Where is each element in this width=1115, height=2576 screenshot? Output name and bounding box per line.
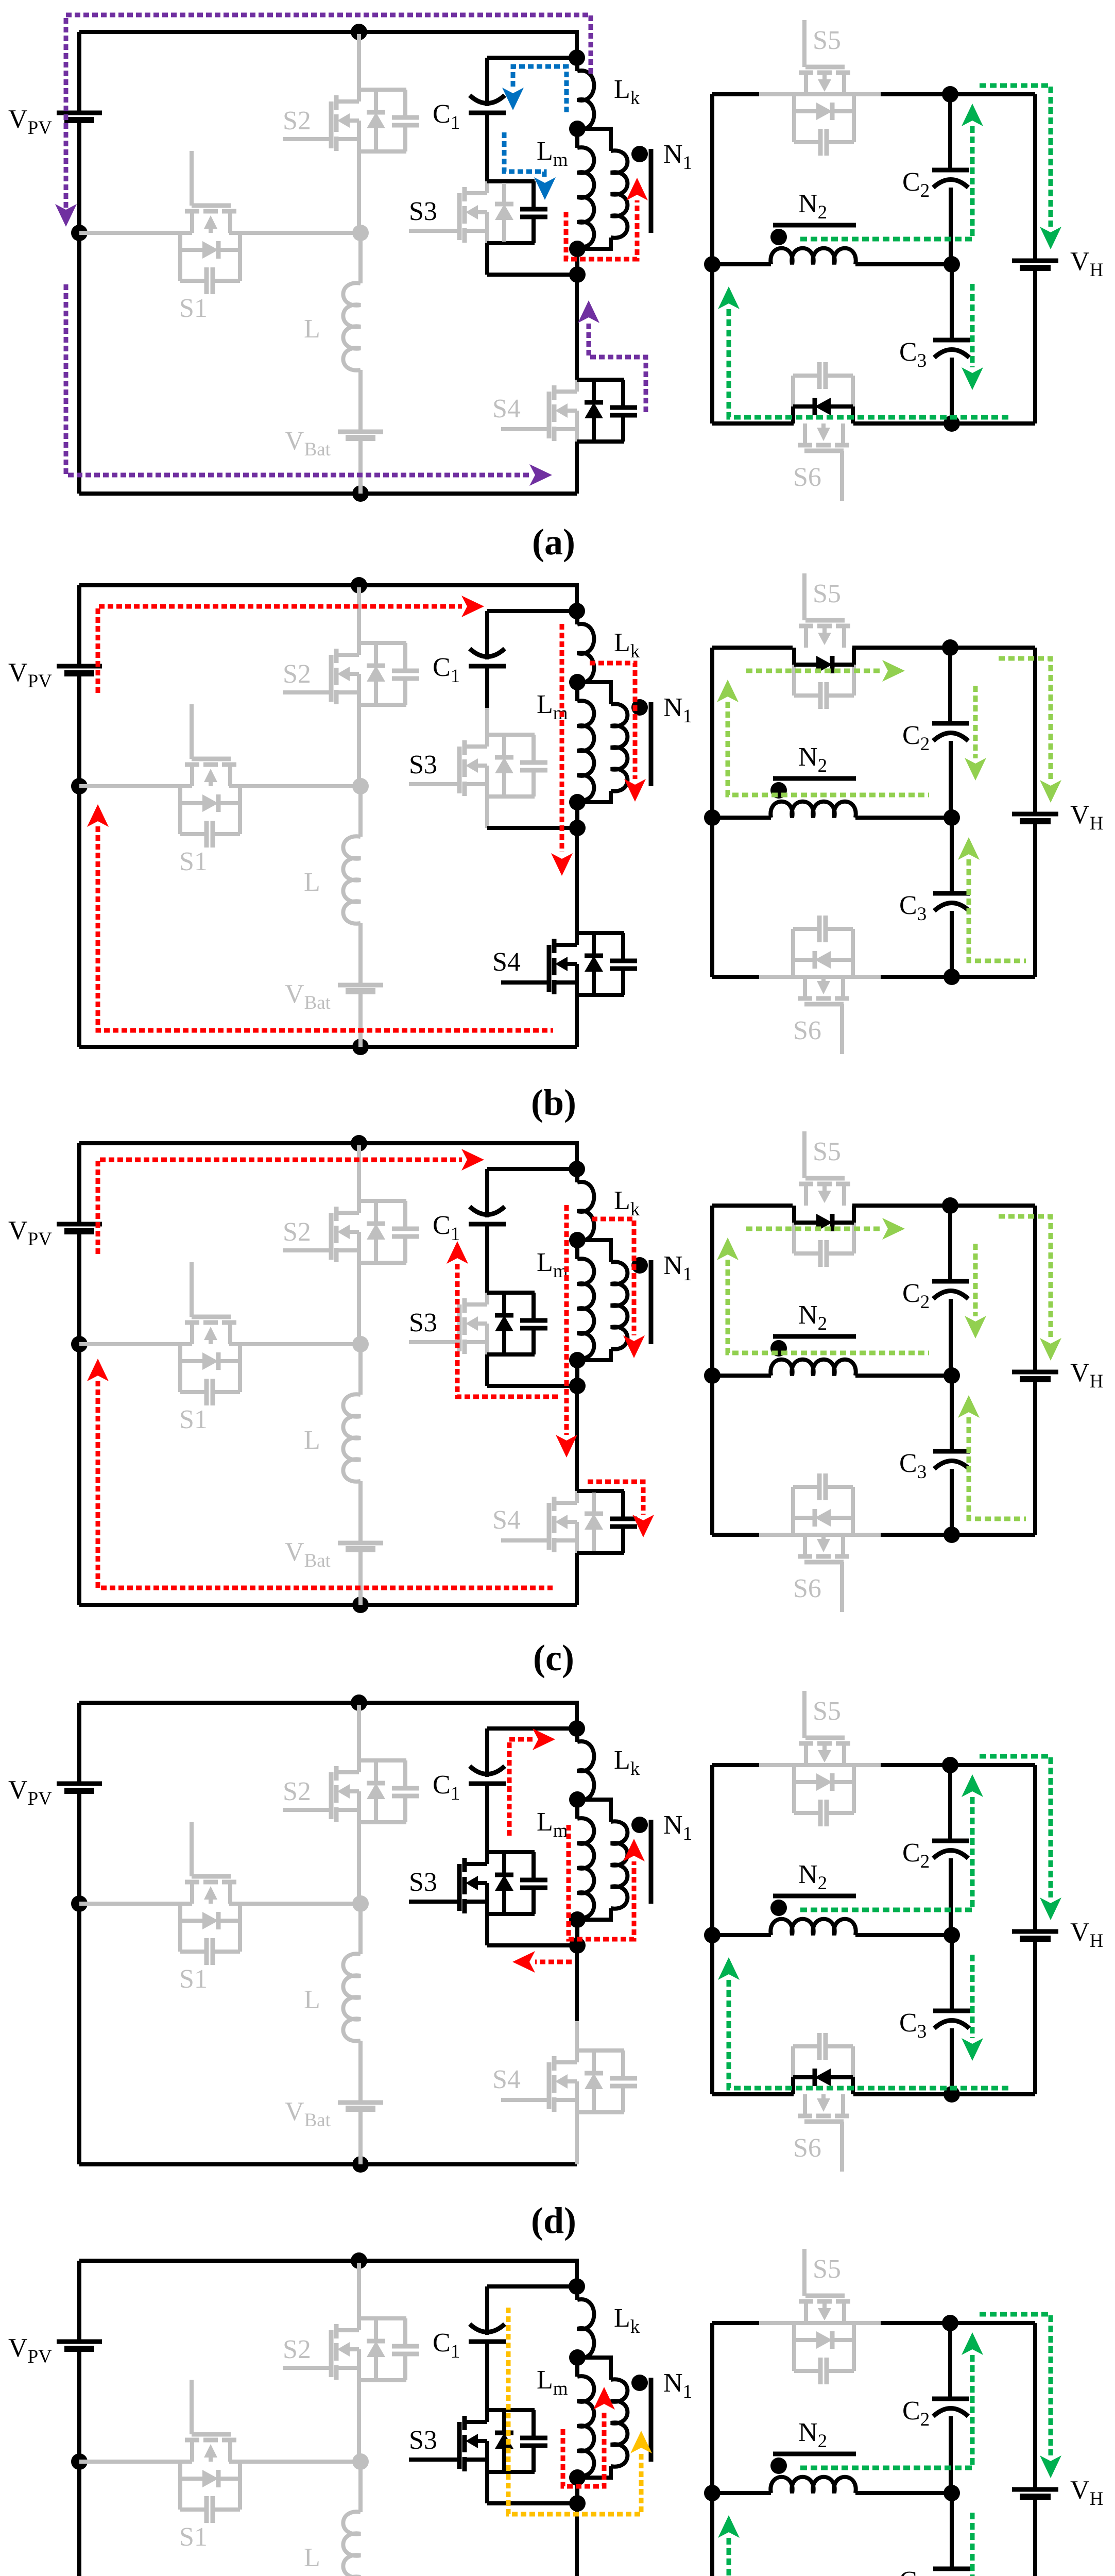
battery V_PV xyxy=(57,664,102,669)
current path red through clamp xyxy=(560,624,564,852)
node N2 right xyxy=(944,256,960,273)
wire middle rail (grey) xyxy=(79,2460,192,2464)
body diode S6 conduction path xyxy=(791,406,795,423)
gate lead S5 xyxy=(802,1131,807,1178)
polarity dot N2 xyxy=(770,229,787,245)
node clamp bottom junction xyxy=(569,266,586,283)
inductor Lm xyxy=(575,1800,579,1819)
wire bottom rail left circuit xyxy=(79,2162,577,2166)
inductor Lk xyxy=(577,71,594,129)
inductor Lk xyxy=(577,624,594,683)
wire left rail upper xyxy=(77,585,81,666)
node top S2 junction xyxy=(351,24,367,40)
current path green return via S6 xyxy=(729,309,1012,417)
wire bottom rail left circuit xyxy=(79,1603,577,1607)
wire S3 source stub xyxy=(485,1914,489,1945)
svg-text:S5: S5 xyxy=(813,579,841,608)
gate lead S1 xyxy=(190,151,194,206)
winding N1 xyxy=(577,2358,611,2380)
gate lead S3 xyxy=(409,782,459,786)
wire S2 source stub xyxy=(357,705,361,786)
svg-text:S4: S4 xyxy=(492,394,521,423)
wire clamp bottom rail xyxy=(487,2501,577,2505)
wire right right rail upper xyxy=(1033,1206,1037,1372)
polarity dot N1 xyxy=(631,1817,648,1833)
wire L upper stub xyxy=(358,1904,363,1954)
current path green through C3 xyxy=(970,284,975,367)
core bar N1 xyxy=(649,1260,654,1344)
capacitor C1 xyxy=(469,1222,506,1227)
svg-text:L: L xyxy=(304,1985,320,2014)
wire C3 branch lower xyxy=(950,2028,954,2094)
core bar N2 xyxy=(773,223,856,228)
node Lk-Lm junction xyxy=(569,674,586,690)
capacitor C2 xyxy=(932,1279,969,1284)
wire L to V_Bat xyxy=(358,923,363,985)
transistor S2 xyxy=(334,95,339,110)
wire bottom rail right circuit xyxy=(712,2092,794,2096)
svg-text:L: L xyxy=(304,2543,320,2572)
node transformer top xyxy=(569,603,585,619)
node top S2 junction xyxy=(351,1694,367,1711)
battery V_PV xyxy=(57,111,102,115)
node N2 left xyxy=(704,256,721,273)
core bar N1 xyxy=(649,2378,654,2462)
svg-text:(c): (c) xyxy=(533,1637,574,1679)
node middle grey junction xyxy=(352,1336,369,1352)
wire clamp bottom rail xyxy=(487,273,577,277)
wire C2 branch upper xyxy=(948,1765,952,1841)
transistor S4 xyxy=(552,2056,557,2071)
transistor S2 xyxy=(334,1207,339,1221)
wire C2 branch lower xyxy=(949,2416,953,2493)
wire C1 to S3 xyxy=(485,2342,489,2383)
wire C3 branch upper xyxy=(950,1935,954,2011)
svg-text:S1: S1 xyxy=(179,2522,208,2552)
wire clamp bottom rail xyxy=(487,1384,577,1388)
battery V_H xyxy=(1012,1370,1058,1375)
wire left rail lower xyxy=(77,120,81,494)
transistor S4 xyxy=(552,385,557,400)
winding N1 xyxy=(577,1800,611,1822)
node C3 bottom xyxy=(944,415,960,432)
current path light-green up through C3 xyxy=(969,1417,1026,1519)
transistor S2 xyxy=(334,1766,339,1781)
svg-text:S1: S1 xyxy=(179,294,208,323)
inductor L xyxy=(343,2512,361,2576)
wire right right rail upper xyxy=(1033,648,1037,814)
polarity dot N2 xyxy=(770,1340,787,1357)
node N2 left xyxy=(704,809,721,826)
wire Lm-clamp link xyxy=(575,1920,579,1945)
gate lead S1 xyxy=(190,1262,194,1317)
node left-mid junction xyxy=(71,778,88,794)
wire S2 drain stub xyxy=(357,587,361,643)
transistor S1 xyxy=(185,2438,199,2443)
inductor Lk xyxy=(577,1741,594,1800)
node N2 left xyxy=(704,1367,721,1384)
body diode S5 conduction path xyxy=(792,648,796,665)
wire top rail right circuit xyxy=(712,646,793,650)
node C2 top xyxy=(942,639,958,656)
wire top rail right circuit xyxy=(712,1204,793,1208)
wire S2 drain stub xyxy=(357,34,361,90)
current path green return via S6 xyxy=(729,1980,1012,2088)
svg-text:S2: S2 xyxy=(283,106,311,135)
current path green through C3 xyxy=(970,2513,975,2576)
wire S2 drain stub xyxy=(357,2263,361,2318)
svg-text:S3: S3 xyxy=(409,1868,437,1897)
gate lead S2 xyxy=(283,137,331,141)
wire C3 branch lower xyxy=(950,911,954,977)
wire bottom rail right circuit xyxy=(712,421,794,426)
core bar N2 xyxy=(773,1334,856,1339)
wire L to V_Bat xyxy=(358,2041,363,2103)
current path light-green down through C2 xyxy=(973,686,978,758)
current path green return via S6 xyxy=(729,2538,1012,2576)
gate lead S4 xyxy=(501,2098,549,2102)
wire top rail right circuit xyxy=(712,1763,1035,1767)
wire right right rail lower xyxy=(1033,2497,1037,2576)
svg-text:S4: S4 xyxy=(492,947,521,977)
wire S4 source xyxy=(575,995,579,1047)
wire C2 branch upper xyxy=(948,648,952,723)
node left-mid junction xyxy=(71,1895,88,1912)
transistor S6 xyxy=(798,996,812,1001)
node N2 right xyxy=(944,1927,960,1943)
inductor L xyxy=(343,1394,361,1481)
battery V_H xyxy=(1012,812,1058,817)
node Lk-Lm junction xyxy=(569,1791,586,1808)
transistor S3 xyxy=(462,1858,467,1872)
svg-text:S3: S3 xyxy=(409,1308,437,1337)
wire C3 branch upper xyxy=(950,264,954,340)
battery V_PV xyxy=(57,1782,102,1786)
core bar N2 xyxy=(773,776,856,781)
node transformer top xyxy=(569,49,585,66)
wire left rail upper xyxy=(77,32,81,113)
wire top rail left circuit xyxy=(79,2261,577,2286)
node N2 right xyxy=(944,1367,960,1384)
wire L to V_Bat xyxy=(358,1481,363,1543)
wire right right rail lower xyxy=(1033,821,1037,977)
capacitor C2 xyxy=(932,1839,969,1843)
wire Lm-clamp link xyxy=(575,802,579,828)
node middle grey junction xyxy=(352,778,369,794)
current path red main loop bottom xyxy=(98,1381,553,1588)
wire C1 to S3 xyxy=(485,113,489,155)
node Lm bottom xyxy=(569,241,586,257)
inductor Lm xyxy=(575,2358,579,2377)
current path orange C1 N1 loop xyxy=(508,2308,641,2514)
current path red S3 to node xyxy=(509,1739,533,1836)
inductor Lm xyxy=(575,1240,579,1259)
current path purple S4 to transformer xyxy=(589,323,646,412)
wire V_Bat to bottom xyxy=(358,438,363,494)
inductor Lm xyxy=(575,129,579,148)
node C3 bottom xyxy=(944,969,960,985)
capacitor C1 xyxy=(469,111,506,115)
wire S4 drain xyxy=(575,1386,579,1462)
wire Lm-clamp link xyxy=(575,2478,579,2503)
current path blue C1 charge xyxy=(513,66,567,112)
core bar N1 xyxy=(649,702,654,786)
node transformer top xyxy=(569,2278,585,2295)
gate lead S6 xyxy=(840,451,844,501)
wire S2 source stub xyxy=(357,1822,361,1904)
svg-text:S5: S5 xyxy=(813,1137,841,1166)
node C2 top xyxy=(942,1197,958,1214)
svg-text:L: L xyxy=(304,314,320,344)
svg-text:S3: S3 xyxy=(409,197,437,226)
wire C2 branch lower xyxy=(949,1858,953,1935)
body diode S6 conduction path xyxy=(791,2077,795,2094)
wire clamp bottom rail xyxy=(487,1943,577,1947)
gate lead S2 xyxy=(283,1248,331,1252)
transistor S1 xyxy=(185,762,199,767)
wire C1 to S3 xyxy=(485,1224,489,1266)
polarity dot N1 xyxy=(631,2375,648,2391)
current path red main loop bottom xyxy=(98,826,553,1030)
wire clamp top rail xyxy=(487,1726,577,1731)
transistor S5 xyxy=(799,624,813,629)
wire S2 drain stub xyxy=(357,1705,361,1760)
winding N2 xyxy=(712,816,771,820)
current path light-green down through C2 xyxy=(973,1244,978,1316)
wire V_Bat to bottom xyxy=(358,1549,363,1605)
wire Lm-clamp link xyxy=(575,249,579,275)
wire bottom rail left circuit xyxy=(79,1045,577,1049)
wire V_Bat to bottom xyxy=(358,2109,363,2164)
wire S4 source xyxy=(575,442,579,494)
battery V_H xyxy=(1012,259,1058,263)
core bar N1 xyxy=(649,1820,654,1904)
wire L upper stub xyxy=(358,1344,363,1395)
wire C1 top stub xyxy=(485,611,489,659)
current path red Lk N1 loop xyxy=(592,1219,634,1335)
svg-text:S1: S1 xyxy=(179,1405,208,1434)
current path red into S3 return xyxy=(535,1960,572,1964)
wire middle rail (grey) xyxy=(79,231,192,235)
node left-mid junction xyxy=(71,1336,88,1352)
current path red down through Lk xyxy=(564,1205,569,1435)
node C2 top xyxy=(942,2315,958,2331)
node clamp bottom junction xyxy=(569,1378,586,1394)
wire S3 source stub xyxy=(485,1354,489,1386)
gate lead S5 xyxy=(802,1691,807,1738)
gate lead S3 xyxy=(409,229,459,233)
winding N1 xyxy=(577,1240,611,1262)
gate lead S1 xyxy=(190,704,194,759)
svg-text:S4: S4 xyxy=(492,2065,521,2094)
core bar N1 xyxy=(649,149,654,233)
wire S3 source stub xyxy=(485,2472,489,2503)
gate lead S2 xyxy=(283,690,331,694)
transistor S5 xyxy=(799,1182,813,1187)
node top S2 junction xyxy=(351,577,367,594)
current path green N2 to C2 xyxy=(800,126,972,239)
node transformer top xyxy=(569,1161,585,1177)
current path red main loop top xyxy=(98,1160,462,1254)
wire C3 branch upper xyxy=(950,2493,954,2569)
wire top rail left circuit xyxy=(79,585,577,611)
node top S2 junction xyxy=(351,1135,367,1151)
current path green through C3 xyxy=(970,1955,975,2038)
wire V_Bat to bottom xyxy=(358,991,363,1047)
winding N2 xyxy=(712,2491,771,2495)
transistor S6 xyxy=(798,1554,812,1559)
gate lead S1 xyxy=(190,1822,194,1876)
core bar N2 xyxy=(773,1894,856,1899)
wire S4 drain xyxy=(575,2503,579,2576)
transistor S6 xyxy=(798,443,812,448)
svg-text:S2: S2 xyxy=(283,2335,311,2364)
transistor S2 xyxy=(334,2324,339,2338)
wire left rail lower xyxy=(77,673,81,1047)
wire bottom rail right circuit xyxy=(712,975,1035,979)
capacitor C1 xyxy=(469,664,506,669)
transistor S6 xyxy=(798,2114,812,2119)
capacitor C1 xyxy=(469,2340,506,2344)
gate lead S3 xyxy=(409,1340,459,1344)
capacitor C3 xyxy=(933,338,970,343)
wire C1 to S3 xyxy=(485,1784,489,1825)
wire S2 source stub xyxy=(357,151,361,233)
gate lead S4 xyxy=(501,980,549,985)
transistor S3 xyxy=(462,1298,467,1313)
wire S3 source stub xyxy=(485,243,489,275)
wire S4 source xyxy=(575,2112,579,2164)
node clamp bottom junction xyxy=(569,820,586,836)
battery V_H xyxy=(1012,2487,1058,2492)
svg-text:S3: S3 xyxy=(409,2426,437,2455)
wire left rail lower xyxy=(77,1791,81,2164)
polarity dot N1 xyxy=(631,146,648,162)
gate lead S3 xyxy=(409,1900,459,1904)
inductor Lm xyxy=(575,682,579,701)
node C3 bottom xyxy=(944,1527,960,1543)
node clamp bottom junction xyxy=(569,1937,586,1954)
svg-text:S1: S1 xyxy=(179,1964,208,1994)
transistor S3 xyxy=(462,187,467,201)
wire C2 branch upper xyxy=(948,1206,952,1281)
gate lead S5 xyxy=(802,20,807,67)
svg-text:S2: S2 xyxy=(283,1217,311,1247)
svg-text:S6: S6 xyxy=(793,1574,821,1603)
inductor Lk xyxy=(577,2299,594,2358)
node Lk-Lm junction xyxy=(569,2349,586,2366)
svg-text:L: L xyxy=(304,868,320,897)
polarity dot N2 xyxy=(770,782,787,799)
svg-text:(b): (b) xyxy=(531,1082,576,1123)
capacitor C3 xyxy=(933,2009,970,2013)
node N2 right xyxy=(944,2485,960,2501)
wire S3 source stub xyxy=(485,796,489,828)
current path red Lk N1 loop xyxy=(590,663,635,779)
capacitor C3 xyxy=(933,891,970,896)
wire S4 source xyxy=(575,1553,579,1605)
svg-text:S2: S2 xyxy=(283,1777,311,1806)
current path red up through C1 xyxy=(457,1264,559,1397)
svg-text:(d): (d) xyxy=(531,2200,576,2241)
wire top rail left circuit xyxy=(79,1703,577,1728)
node N2 left xyxy=(704,2485,721,2501)
winding N2 xyxy=(712,1374,771,1378)
battery V_H xyxy=(1012,1929,1058,1934)
node middle grey junction xyxy=(352,1895,369,1912)
wire right right rail upper xyxy=(1033,94,1037,261)
wire left rail lower xyxy=(77,1231,81,1605)
capacitor C1 xyxy=(469,1782,506,1786)
wire C2 branch upper xyxy=(948,94,952,170)
transistor S3 xyxy=(462,740,467,755)
transistor S5 xyxy=(799,1741,813,1746)
inductor L xyxy=(343,1954,361,2041)
svg-text:S6: S6 xyxy=(793,2133,821,2163)
node left-mid junction xyxy=(71,225,88,241)
wire right right rail lower xyxy=(1033,1379,1037,1535)
wire S4 drain xyxy=(575,828,579,904)
inductor L xyxy=(343,283,361,370)
wire C2 branch lower xyxy=(949,188,953,264)
gate lead S4 xyxy=(501,1538,549,1543)
winding N1 xyxy=(577,682,611,704)
transistor S1 xyxy=(185,1320,199,1325)
battery V_PV xyxy=(57,2340,102,2344)
node Lm bottom xyxy=(569,2469,586,2486)
wire right right rail lower xyxy=(1033,268,1037,423)
current path red N1 loop xyxy=(566,200,637,259)
battery V_Bat xyxy=(338,983,383,988)
svg-text:S5: S5 xyxy=(813,2255,841,2284)
wire S2 source stub xyxy=(357,1263,361,1344)
node C3 bottom xyxy=(944,2086,960,2103)
current path purple bottom loop xyxy=(66,284,529,475)
svg-text:S6: S6 xyxy=(793,1016,821,1045)
gate lead S6 xyxy=(840,1562,844,1612)
svg-text:S3: S3 xyxy=(409,750,437,779)
wire right right rail lower xyxy=(1033,1939,1037,2094)
node middle grey junction xyxy=(352,225,369,241)
node left-mid junction xyxy=(71,2453,88,2470)
current path light-green left rail up xyxy=(728,1260,929,1353)
node Lk-Lm junction xyxy=(569,121,586,137)
wire S4 drain xyxy=(575,1945,579,2021)
current path green into V_H xyxy=(980,86,1051,227)
wire right left rail xyxy=(710,1765,714,2094)
current path light-green left rail up xyxy=(728,702,929,795)
inductor Lk xyxy=(577,1182,594,1241)
node transformer top xyxy=(569,1720,585,1737)
wire C2 branch lower xyxy=(949,741,953,818)
svg-text:S1: S1 xyxy=(179,847,208,876)
capacitor C3 xyxy=(933,1449,970,1454)
transistor S1 xyxy=(185,209,199,214)
current path green into V_H xyxy=(980,2314,1051,2455)
wire C1 top stub xyxy=(485,2286,489,2335)
current path green into V_H xyxy=(980,1756,1051,1897)
current path light-green from V_H xyxy=(999,1216,1051,1338)
wire top rail right circuit xyxy=(712,2321,1035,2325)
wire right left rail xyxy=(710,1206,714,1535)
node N2 right xyxy=(944,809,960,826)
wire left rail upper xyxy=(77,1703,81,1784)
wire middle rail (grey) xyxy=(79,1342,192,1346)
current path light-green up through C3 xyxy=(969,859,1026,961)
gate lead S1 xyxy=(190,2380,194,2434)
wire clamp bottom rail xyxy=(487,826,577,830)
wire C1 top stub xyxy=(485,58,489,106)
